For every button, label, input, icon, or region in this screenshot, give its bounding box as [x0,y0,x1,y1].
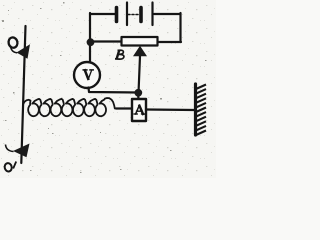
wire top horizontal from left corner to battery [90,13,115,15]
wire right vertical [179,13,181,42]
label O' [4,162,16,173]
wire left vertical battery to junction [89,13,91,42]
label O [7,36,18,48]
hook arc lower [6,145,14,152]
junction dot above ammeter [134,89,142,97]
battery E cell2 negative plate [139,8,143,22]
rheostat slider arrow [133,46,147,56]
wall bar [194,84,197,135]
coil spring [23,98,115,116]
hook arc upper [11,46,18,53]
wire junction to rheostat left [90,40,121,42]
wire right corner to rheostat [157,41,181,43]
wire coil to ammeter [116,107,132,109]
junction dot left [87,38,95,46]
rheostat B body [122,37,158,46]
wire junction to ammeter [137,93,140,99]
battery E cell1 positive plate [126,3,128,26]
scan speckles [2,2,207,173]
battery E cell1 negative plate [115,8,119,22]
arrowhead on OO' upper [17,44,31,59]
wall hatching [196,85,206,136]
wire ammeter to wall [146,108,194,111]
wire voltmeter top lead [89,42,91,63]
ammeter A body [132,99,146,121]
label A [134,106,144,114]
label B [115,50,124,59]
wire dotted between cells [128,14,139,16]
battery E cell2 positive plate [151,3,153,26]
arrowhead on OO' lower [13,144,30,158]
voltmeter V body [74,62,100,88]
wire voltmeter bottom lead [89,88,139,93]
wire rheostat slider stem [139,56,141,93]
wire OO' axis line [21,26,25,163]
label V [83,70,93,79]
wire battery to right corner [154,13,181,15]
